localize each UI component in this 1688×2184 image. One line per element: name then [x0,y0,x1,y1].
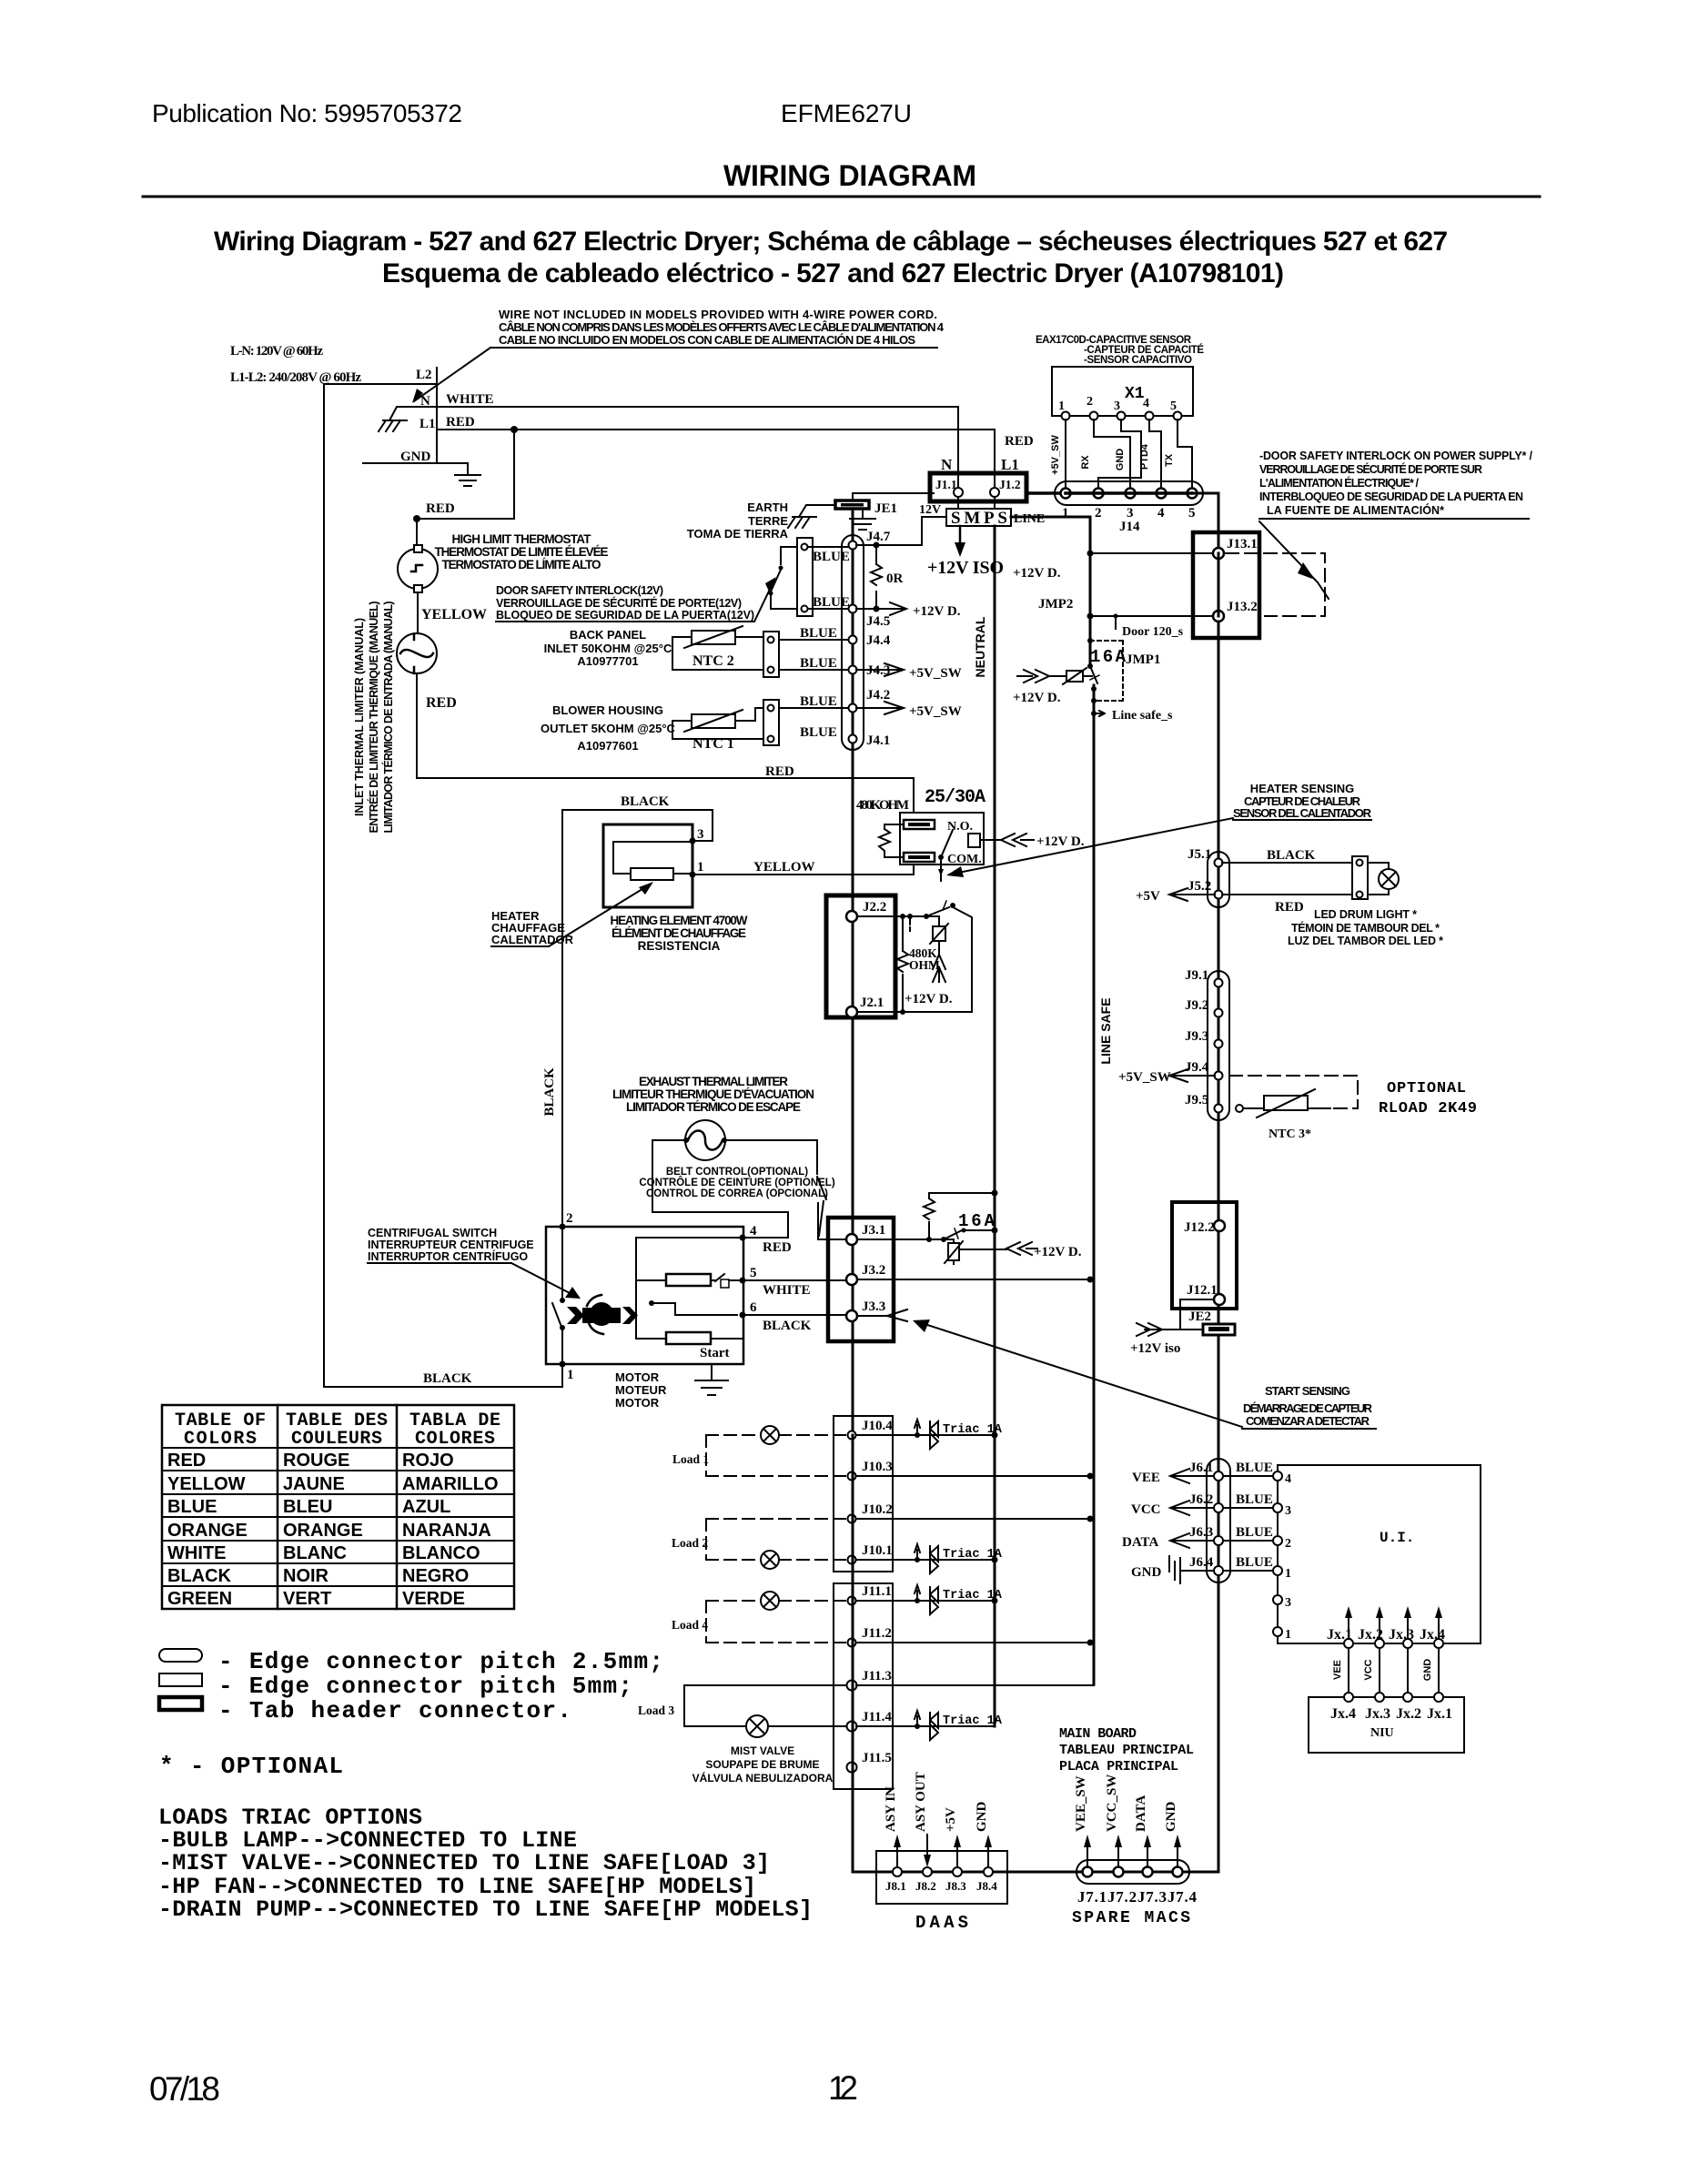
relay coil [968,834,980,847]
tab header connector J2 [826,895,895,1017]
svg-text:TX: TX [1164,453,1175,467]
wire GND [363,463,468,473]
svg-text:2: 2 [1285,1537,1291,1551]
pin J9.1 [1215,979,1223,987]
ground earth under GND [455,475,480,486]
svg-text:CONTROL DE CORREA (OPCIONAL): CONTROL DE CORREA (OPCIONAL) [646,1188,828,1199]
tab header connector J1 [930,473,1026,501]
tab header connector J3 [828,1218,894,1341]
svg-text:Jx.3: Jx.3 [1389,1627,1414,1643]
svg-text:J4.1: J4.1 [866,733,890,748]
svg-text:+5V: +5V [944,1807,958,1832]
svg-text:Jx.2: Jx.2 [1396,1706,1421,1722]
svg-text:J9.1: J9.1 [1185,968,1208,983]
arrow ASY OUT [926,1835,928,1862]
nc stub [909,916,911,931]
ground chassis at JE1 [788,517,816,528]
motor inner box [636,1238,743,1339]
svg-text:CENTRIFUGAL SWITCH: CENTRIFUGAL SWITCH [368,1227,497,1239]
svg-text:J11.3: J11.3 [862,1669,892,1683]
pin J11.1 [848,1597,856,1605]
wire J10.3 to LINE [856,1475,1090,1477]
svg-text:HEATING ELEMENT 4700W: HEATING ELEMENT 4700W [611,914,748,927]
pin J6.3 [1214,1536,1223,1545]
heater box [603,824,692,907]
svg-text:BLUE: BLUE [800,626,837,641]
svg-text:EARTH: EARTH [747,500,788,514]
svg-text:LA FUENTE DE ALIMENTACIÓN*: LA FUENTE DE ALIMENTACIÓN* [1267,503,1444,517]
wire bus through J2 [852,916,854,1218]
svg-text:1: 1 [1062,506,1069,521]
svg-text:VEE: VEE [1132,1471,1160,1485]
wire bus J6 down to bottom rail [1218,1582,1220,1872]
svg-text:NTC 3*: NTC 3* [1269,1127,1311,1141]
wire J11.3 to LINE corner [856,1685,1094,1726]
svg-text:J2.2: J2.2 [863,900,886,915]
svg-text:J4.4: J4.4 [866,633,891,648]
wire NTC1 loop [672,708,763,739]
svg-text:J10.2: J10.2 [862,1502,893,1517]
pin J10.4 [848,1431,856,1440]
svg-text:L1: L1 [1001,456,1019,473]
svg-text:4: 4 [1143,397,1149,410]
relay switch arm [938,854,944,860]
svg-text:J5.1: J5.1 [1188,847,1211,862]
pin J1.1 [954,488,963,497]
arrow VCC [1170,1501,1214,1515]
terminal 1 [690,872,696,878]
svg-text:JAUNE: JAUNE [283,1474,345,1494]
svg-text:+5V_SW: +5V_SW [909,704,962,719]
svg-text:- Tab header connector.: - Tab header connector. [218,1697,571,1724]
svg-text:Jx.3: Jx.3 [1365,1706,1390,1722]
wire interlock bottom to J4.5 [808,608,848,610]
dashed JMP1 box [1090,641,1123,701]
wire RED to relay [417,778,914,813]
svg-text:1: 1 [567,1368,574,1382]
svg-text:+12V ISO: +12V ISO [927,558,1004,578]
pin J11.3 [847,1681,857,1691]
svg-text:BLUE: BLUE [800,725,837,740]
svg-text:1: 1 [1285,1567,1291,1581]
svg-text:4: 4 [750,1224,757,1239]
svg-text:J13.1: J13.1 [1227,537,1258,551]
svg-text:YELLOW: YELLOW [167,1474,246,1494]
edge connector J4 capsule [842,535,864,750]
edge connector J5 capsule [1208,852,1229,907]
dashed load2 wiring [706,1519,847,1560]
start winding [666,1332,711,1344]
svg-text:RED: RED [426,501,455,516]
svg-text:Wiring Diagram - 527 and 627 E: Wiring Diagram - 527 and 627 Electric Dr… [214,227,1448,257]
pin J1.2 [990,488,999,497]
run to start right link [636,1279,743,1281]
centrifugal start switch [715,1274,724,1281]
svg-text:VCC: VCC [1363,1659,1374,1680]
svg-text:JE2: JE2 [1188,1309,1211,1324]
arrow GND J8.4 [987,1840,989,1867]
edge connector door interlock 5mm [797,538,813,616]
load4 lamp [761,1592,779,1610]
motor armature [582,1308,621,1323]
svg-text:BLACK: BLACK [423,1371,472,1386]
tab header connector JE2 [1203,1324,1235,1335]
edge connector J9 capsule [1208,971,1229,1120]
pin J4.4 [849,636,857,644]
dashed optional rload [1229,1076,1358,1108]
svg-text:DOOR SAFETY INTERLOCK(12V): DOOR SAFETY INTERLOCK(12V) [496,584,663,597]
SMPS box [946,509,1011,526]
svg-text:YELLOW: YELLOW [421,607,487,622]
heating element resistor [631,868,673,880]
svg-text:+12V D.: +12V D. [1013,566,1061,581]
svg-text:RED: RED [763,1240,792,1255]
svg-text:J10.4: J10.4 [862,1419,893,1433]
switch 16A arm [941,1237,946,1242]
fuse symbol [1066,671,1083,682]
svg-text:LUZ DEL TAMBOR DEL LED *: LUZ DEL TAMBOR DEL LED * [1288,935,1443,947]
wire J1 to J14.1 [1026,491,1060,495]
svg-text:CONTRÔLE DE CEINTURE (OPTIONEL: CONTRÔLE DE CEINTURE (OPTIONEL) [639,1177,834,1188]
svg-text:L1: L1 [419,417,436,431]
svg-text:J9.3: J9.3 [1185,1029,1208,1044]
UI spare pins [1273,1595,1282,1604]
table of colors box [162,1405,514,1609]
svg-text:ORANGE: ORANGE [167,1521,248,1541]
svg-text:Door 120_s: Door 120_s [1122,625,1184,639]
junction RED corner [413,515,420,522]
pin J6.1 [1214,1471,1223,1481]
load1 lamp [761,1426,779,1444]
svg-text:YELLOW: YELLOW [753,860,815,875]
svg-text:RESISTENCIA: RESISTENCIA [638,939,721,953]
svg-text:J8.4: J8.4 [976,1879,997,1893]
svg-text:BLUE: BLUE [813,550,850,564]
wire J4 bus down to yellow row [852,750,854,916]
svg-text:J6.4: J6.4 [1189,1555,1214,1570]
wire J3.3 BLACK row [743,1314,846,1316]
svg-text:RX: RX [1080,455,1091,470]
door switch leader diagonal [1259,521,1329,599]
pin J5.2 [1215,891,1223,899]
wire motor4 to J3.1 [818,1203,846,1239]
svg-text:25/30A: 25/30A [925,787,986,808]
svg-text:3: 3 [1127,506,1134,521]
svg-text:INTERBLOQUEO DE SEGURIDAD DE L: INTERBLOQUEO DE SEGURIDAD DE LA PUERTA E… [1259,490,1523,503]
svg-text:Line safe_s: Line safe_s [1112,709,1173,723]
pin J10.2 [848,1515,856,1523]
svg-text:A10977601: A10977601 [577,739,638,753]
svg-text:VEE_SW: VEE_SW [1074,1775,1088,1832]
svg-text:ROJO: ROJO [402,1451,454,1471]
fuse at J3.1 [948,1243,959,1260]
terminal 6 [740,1312,746,1319]
wire J1 to SMPS [958,497,995,509]
svg-text:J6.2: J6.2 [1189,1492,1213,1507]
ground motor [695,1364,728,1395]
tab header connector JE1 [835,500,869,509]
wire J3.2 WHITE row [743,1279,1090,1280]
svg-text:BLACK: BLACK [167,1566,232,1586]
svg-text:EXHAUST THERMAL LIMITER: EXHAUST THERMAL LIMITER [639,1075,788,1088]
svg-text:WIRE NOT INCLUDED IN MODELS PR: WIRE NOT INCLUDED IN MODELS PROVIDED WIT… [499,308,937,321]
wire bus JE2 down [1218,1309,1220,1459]
svg-text:SENSOR DEL CALENTADOR: SENSOR DEL CALENTADOR [1233,806,1372,820]
svg-text:THERMOSTAT DE LIMITE ÉLEVÉE: THERMOSTAT DE LIMITE ÉLEVÉE [435,545,609,559]
terminal 1 [560,1361,566,1368]
arrow +5V [956,1840,958,1867]
lamp drum light [1368,863,1389,895]
note underline [490,347,937,349]
svg-text:TERMOSTATO DE LÍMITE ALTO: TERMOSTATO DE LÍMITE ALTO [442,558,601,571]
svg-text:BLOQUEO DE SEGURIDAD DE LA PUE: BLOQUEO DE SEGURIDAD DE LA PUERTA(12V) [496,609,754,622]
svg-text:* - OPTIONAL: * - OPTIONAL [159,1753,343,1780]
wire motor internal vertical [561,1227,563,1364]
ground earth below JE1 [850,510,875,530]
wire top horizontal to left rail [324,383,437,385]
svg-text:NEUTRAL: NEUTRAL [973,616,987,677]
svg-text:2: 2 [1095,506,1102,521]
switch arm JMP1 [1090,666,1097,683]
svg-text:J4.5: J4.5 [866,614,890,629]
right loop to J2.1 [857,908,972,1012]
wire bus J5 to J9 [1218,907,1220,971]
svg-text:J2.1: J2.1 [860,996,884,1010]
thermostat high limit circle [398,549,438,589]
pin J7.4 [1173,1867,1183,1877]
svg-text:ROUGE: ROUGE [283,1451,349,1471]
svg-text:NIU: NIU [1370,1726,1394,1740]
thermistor NTC1 [692,714,735,728]
wire LINE from SMPS [1011,517,1090,666]
svg-text:J11.2: J11.2 [862,1626,892,1641]
svg-text:X1: X1 [1125,385,1145,403]
pin J11.4 [847,1722,857,1732]
tab header COM [904,853,935,862]
svg-text:GND: GND [1115,449,1126,471]
UI box [1278,1465,1481,1643]
NIU pins [1344,1693,1353,1702]
svg-text:DÉMARRAGE DE CAPTEUR: DÉMARRAGE DE CAPTEUR [1243,1401,1373,1415]
wire BLACK heater top [562,810,713,841]
svg-text:JMP2: JMP2 [1038,597,1073,612]
svg-text:GREEN: GREEN [167,1589,232,1609]
svg-text:SOUPAPE DE BRUME: SOUPAPE DE BRUME [705,1758,819,1771]
wire J13.1 to LINE [1090,552,1213,554]
svg-text:VERDE: VERDE [402,1589,465,1609]
svg-text:J10.3: J10.3 [862,1460,893,1474]
wire J2.2 row [857,915,939,917]
svg-text:Publication No: 5995705372: Publication No: 5995705372 [152,99,462,127]
wire X1.2 to J14.3 [1094,420,1130,488]
edge connector J10 box [834,1416,893,1572]
svg-text:16A: 16A [1090,647,1127,667]
svg-text:EFME627U: EFME627U [781,99,912,127]
pin J4.3 [849,666,857,674]
pin J12.2 [1214,1220,1225,1231]
svg-text:J11.4: J11.4 [862,1710,892,1724]
svg-text:5: 5 [1188,506,1196,521]
resistor 480K OHM [897,916,908,1012]
svg-text:J4.7: J4.7 [866,530,891,544]
svg-text:RLOAD 2K49: RLOAD 2K49 [1379,1100,1477,1117]
svg-text:PTD4: PTD4 [1139,443,1150,470]
load3 wiring solid [684,1685,846,1726]
svg-text:BLUE: BLUE [167,1497,217,1517]
svg-text:Load 3: Load 3 [638,1704,674,1717]
wire NEUTRAL vertical [994,526,996,1726]
wire X1.1 to J14.1 [1065,420,1066,488]
wires UI to NIU [1349,1648,1439,1693]
wire BLACK vertical to motor [561,810,563,1227]
svg-text:J13.2: J13.2 [1227,600,1258,614]
svg-text:COLORES: COLORES [415,1429,495,1450]
wire left rail vertical [323,384,325,1387]
svg-text:J10.1: J10.1 [862,1543,893,1558]
pin J13.2 [1213,611,1224,622]
svg-text:-DOOR SAFETY INTERLOCK ON POWE: -DOOR SAFETY INTERLOCK ON POWER SUPPLY* … [1259,450,1533,462]
wire +12V iso from SMPS to J4.7 [856,517,946,545]
wire NTC2 to J4.3 and +5V_SW [779,669,899,671]
svg-text:BLACK: BLACK [763,1319,812,1333]
dashed door switch J13.1 [1226,553,1325,616]
thermistor NTC2 [692,631,735,644]
svg-text:J3.1: J3.1 [862,1223,885,1238]
svg-text:TERRE: TERRE [748,514,788,528]
arrow +12VD at 16A [1006,1242,1037,1255]
svg-text:Jx.1: Jx.1 [1427,1706,1452,1722]
pin J9.4 [1215,1072,1223,1080]
arrow VEE [1170,1469,1214,1483]
svg-text:+12V iso: +12V iso [1130,1341,1180,1356]
svg-text:L1-L2: 240/208V @ 60Hz: L1-L2: 240/208V @ 60Hz [230,370,361,385]
svg-text:VERT: VERT [283,1589,331,1609]
terminal 3 [690,838,696,844]
svg-text:NEGRO: NEGRO [402,1566,469,1586]
pin J11.5 [847,1763,857,1773]
svg-text:MAIN BOARD: MAIN BOARD [1059,1726,1137,1742]
svg-text:J11.5: J11.5 [862,1751,892,1765]
svg-text:J9.5: J9.5 [1185,1093,1208,1107]
svg-text:J8.2: J8.2 [915,1879,936,1893]
svg-text:-DRAIN PUMP-->CONNECTED TO LIN: -DRAIN PUMP-->CONNECTED TO LINE SAFE[HP … [158,1896,813,1923]
svg-text:+5V: +5V [1136,889,1160,904]
svg-text:Esquema de cableado eléctrico: Esquema de cableado eléctrico - 527 and … [382,258,1284,288]
svg-text:6: 6 [750,1300,757,1315]
svg-text:2: 2 [566,1211,573,1226]
arrow GND J7.4 [1177,1840,1178,1867]
svg-text:LINE SAFE: LINE SAFE [1098,997,1113,1064]
svg-text:+12V D.: +12V D. [1013,691,1061,705]
svg-text:NTC 2: NTC 2 [692,653,734,669]
svg-text:COM.: COM. [947,853,982,866]
svg-text:4: 4 [1285,1472,1291,1486]
svg-text:MOTEUR: MOTEUR [615,1383,667,1397]
wire X1.3 to J14.2 [1098,420,1141,488]
svg-text:MOTOR: MOTOR [615,1396,660,1410]
wire limiter down RED [416,673,418,778]
svg-text:GND: GND [1422,1659,1433,1682]
wires J6 to UI BLUE [1223,1476,1274,1571]
svg-text:J12.2: J12.2 [1184,1220,1215,1235]
svg-text:VCC_SW: VCC_SW [1105,1774,1119,1832]
svg-text:12: 12 [828,2069,858,2107]
ground GND J6.4 [1169,1556,1214,1583]
svg-text:COLORS: COLORS [184,1429,257,1450]
thermistor NTC3 [1236,1105,1243,1112]
svg-text:ENTRÉE DE LIMITEUR THERMIQUE (: ENTRÉE DE LIMITEUR THERMIQUE (MANUEL) [367,602,380,834]
wire line safe s vertical [1093,685,1096,1684]
svg-text:MIST VALVE: MIST VALVE [731,1744,794,1757]
arrow +12VD coil [1001,834,1034,846]
svg-text:AMARILLO: AMARILLO [402,1474,499,1494]
wire RED drop to thermostat [417,430,514,549]
edge connector J7 capsule [1076,1860,1189,1884]
svg-text:VÁLVULA NEBULIZADORA: VÁLVULA NEBULIZADORA [692,1771,834,1785]
tab header N.O. [904,820,935,829]
belt switch [817,1177,826,1236]
pin J6.4 [1214,1566,1223,1575]
wire L1 drop [994,430,996,488]
wire line safe bus J13 to J5 [1218,638,1220,852]
wire J4.5 +12VD [856,608,903,610]
svg-text:HEATER SENSING: HEATER SENSING [1250,782,1355,795]
DAAS box [876,1851,1007,1904]
pin J8.4 [984,1867,993,1876]
svg-text:12V: 12V [919,503,941,517]
svg-text:BLUE: BLUE [1236,1492,1273,1507]
arrow +5V at J5.2 [1169,888,1215,901]
svg-text:VERROUILLAGE DE SÉCURITÉ DE PO: VERROUILLAGE DE SÉCURITÉ DE PORTE(12V) [496,596,742,610]
svg-text:GND: GND [975,1802,989,1833]
terminal 2 [560,1224,566,1230]
svg-text:TABLEAU PRINCIPAL: TABLEAU PRINCIPAL [1059,1743,1194,1758]
wire DAAS to J7 [1007,1871,1076,1874]
arrow DATA [1170,1533,1214,1548]
svg-text:U.I.: U.I. [1380,1530,1414,1546]
svg-text:J4.2: J4.2 [866,688,890,703]
load2 lamp [761,1551,779,1569]
svg-text:- Edge connector pitch 2.5mm;: - Edge connector pitch 2.5mm; [218,1648,663,1675]
wire JE1 to chassis ground [799,505,835,517]
relay sense resistor [879,824,904,857]
svg-text:0R: 0R [886,571,904,586]
edge connector J14 capsule [1055,481,1203,505]
wire bus J10-J11 [852,1435,854,1767]
svg-text:3: 3 [1285,1504,1291,1518]
svg-text:N: N [941,456,953,473]
svg-text:RED: RED [1275,900,1304,915]
svg-text:480KOHM: 480KOHM [856,798,909,813]
tab header connector J12 [1172,1202,1237,1309]
svg-text:BLOWER HOUSING: BLOWER HOUSING [552,703,663,717]
J14 pins [1061,489,1071,499]
legend edge connector 2.5mm icon [159,1649,202,1662]
svg-text:BLUE: BLUE [800,694,837,709]
svg-text:BLACK: BLACK [1267,848,1316,863]
pin J3.3 [846,1310,857,1321]
wire J11.2 to LINE [856,1642,1090,1643]
arrow VCC_SW [1117,1840,1119,1867]
wire J5.2 RED to lamp [1222,894,1352,895]
svg-text:NARANJA: NARANJA [402,1521,491,1541]
svg-text:ASY OUT: ASY OUT [914,1772,928,1832]
wire bus J9 to J12 [1218,1120,1220,1202]
svg-text:- Edge connector pitch 5mm;: - Edge connector pitch 5mm; [218,1673,632,1700]
fuse 16A feed [1087,663,1093,669]
wire JE1 up to J1 [853,493,934,500]
pin J3.2 [846,1274,857,1285]
